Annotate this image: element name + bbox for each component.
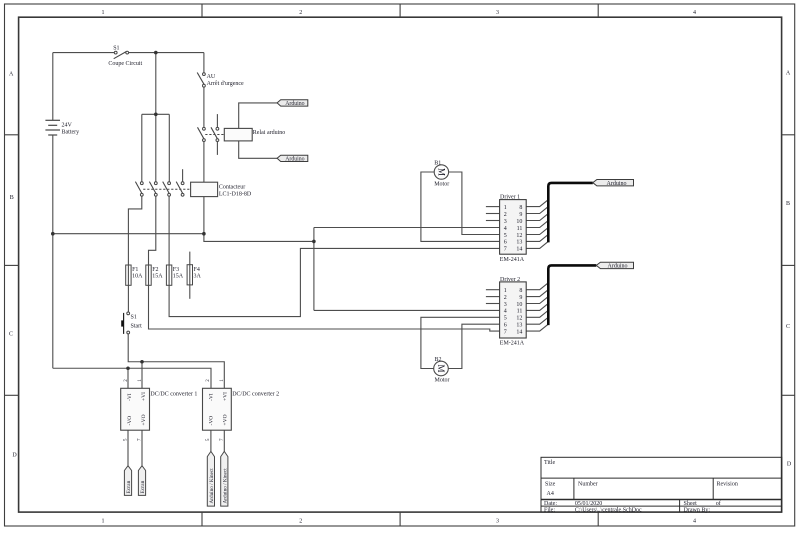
svg-text:9: 9 xyxy=(519,295,522,301)
svg-text:Arrêt d'urgence: Arrêt d'urgence xyxy=(207,81,244,87)
svg-text:C:\Users\..\centrale.SchDoc: C:\Users\..\centrale.SchDoc xyxy=(575,507,642,513)
svg-text:12: 12 xyxy=(516,316,522,322)
svg-text:-VI: -VI xyxy=(127,393,133,401)
svg-text:11: 11 xyxy=(517,309,523,315)
svg-text:Battery: Battery xyxy=(62,130,80,136)
svg-text:AU: AU xyxy=(207,74,216,80)
svg-text:2: 2 xyxy=(504,212,507,218)
svg-text:-VI: -VI xyxy=(209,393,215,401)
svg-text:3: 3 xyxy=(504,219,507,225)
svg-text:C: C xyxy=(9,332,13,338)
svg-text:B: B xyxy=(10,195,14,201)
svg-text:Driver 1: Driver 1 xyxy=(500,195,520,201)
svg-text:Relai arduino: Relai arduino xyxy=(253,130,285,136)
svg-text:Date:: Date: xyxy=(544,501,557,507)
svg-text:DC/DC converter 2: DC/DC converter 2 xyxy=(232,391,279,397)
svg-text:F3: F3 xyxy=(173,267,179,273)
svg-text:+VI: +VI xyxy=(223,392,229,401)
svg-text:1: 1 xyxy=(504,288,507,294)
svg-text:10A: 10A xyxy=(132,274,143,280)
svg-text:8: 8 xyxy=(519,205,522,211)
svg-text:2: 2 xyxy=(299,519,302,525)
svg-text:+VO: +VO xyxy=(141,414,147,425)
svg-text:D: D xyxy=(12,453,17,459)
svg-text:M: M xyxy=(436,364,446,372)
svg-text:24V: 24V xyxy=(62,123,73,129)
svg-text:7: 7 xyxy=(504,247,507,253)
svg-text:6: 6 xyxy=(504,323,507,329)
svg-text:S1: S1 xyxy=(131,314,137,320)
svg-text:Contacteur: Contacteur xyxy=(219,184,245,190)
svg-text:-VO: -VO xyxy=(209,416,215,426)
svg-text:C: C xyxy=(786,324,790,330)
svg-text:-VO: -VO xyxy=(127,416,133,426)
svg-text:13: 13 xyxy=(516,240,522,246)
svg-text:F1: F1 xyxy=(132,267,138,273)
svg-text:A: A xyxy=(786,71,791,77)
svg-text:1: 1 xyxy=(102,519,105,525)
svg-text:Start: Start xyxy=(131,323,143,329)
svg-text:+VI: +VI xyxy=(141,392,147,401)
svg-text:1: 1 xyxy=(102,10,105,16)
svg-text:12: 12 xyxy=(516,233,522,239)
svg-text:7: 7 xyxy=(504,329,507,335)
svg-text:9: 9 xyxy=(519,212,522,218)
svg-text:Sheet: Sheet xyxy=(684,501,698,507)
svg-text:of: of xyxy=(716,500,721,507)
svg-text:DC/DC converter 1: DC/DC converter 1 xyxy=(150,391,197,397)
svg-text:B2: B2 xyxy=(435,357,442,363)
svg-text:Ecran: Ecran xyxy=(126,480,132,493)
svg-text:Motor: Motor xyxy=(435,378,450,384)
svg-text:05/01/2020: 05/01/2020 xyxy=(575,501,602,507)
svg-text:F2: F2 xyxy=(152,267,158,273)
svg-text:File:: File: xyxy=(544,507,555,513)
svg-text:Arduino: Arduino xyxy=(285,101,304,107)
svg-text:Arduino: Arduino xyxy=(608,264,628,270)
svg-text:1: 1 xyxy=(504,205,507,211)
svg-text:10: 10 xyxy=(516,219,522,225)
svg-text:Ecran: Ecran xyxy=(140,480,146,493)
svg-text:LC1-D18-8D: LC1-D18-8D xyxy=(219,192,252,198)
svg-text:A: A xyxy=(9,72,14,78)
svg-text:10: 10 xyxy=(516,302,522,308)
svg-text:Coupe Circuit: Coupe Circuit xyxy=(108,61,142,67)
svg-text:+VO: +VO xyxy=(223,414,229,425)
svg-text:Size: Size xyxy=(545,481,556,487)
svg-text:14: 14 xyxy=(516,247,522,253)
svg-text:11: 11 xyxy=(517,226,523,232)
svg-text:Arduino / Kinect: Arduino / Kinect xyxy=(209,468,215,504)
svg-text:4: 4 xyxy=(504,226,507,232)
svg-text:13: 13 xyxy=(516,323,522,329)
svg-text:S1: S1 xyxy=(113,45,119,51)
svg-text:15A: 15A xyxy=(173,274,184,280)
svg-text:6: 6 xyxy=(504,240,507,246)
svg-text:3A: 3A xyxy=(194,274,202,280)
svg-text:2: 2 xyxy=(504,295,507,301)
svg-text:Motor: Motor xyxy=(434,182,449,188)
svg-text:Driver 2: Driver 2 xyxy=(500,277,520,283)
svg-text:3: 3 xyxy=(504,302,507,308)
svg-text:F4: F4 xyxy=(194,267,200,273)
svg-text:4: 4 xyxy=(693,519,696,525)
svg-text:8: 8 xyxy=(519,288,522,294)
svg-text:B1: B1 xyxy=(434,161,441,167)
svg-text:Arduino: Arduino xyxy=(607,181,627,187)
svg-text:3: 3 xyxy=(496,10,499,16)
svg-text:D: D xyxy=(787,462,792,468)
svg-text:3: 3 xyxy=(496,519,499,525)
svg-text:4: 4 xyxy=(693,10,696,16)
svg-text:2: 2 xyxy=(299,10,302,16)
svg-text:14: 14 xyxy=(516,329,522,335)
svg-text:A4: A4 xyxy=(547,491,554,497)
svg-text:5: 5 xyxy=(504,316,507,322)
svg-text:Title: Title xyxy=(544,460,555,466)
svg-text:EM-241A: EM-241A xyxy=(500,257,525,263)
svg-text:Number: Number xyxy=(578,481,598,487)
svg-text:Drawn By:: Drawn By: xyxy=(684,507,711,513)
svg-text:Arduino: Arduino xyxy=(285,157,304,163)
svg-text:4: 4 xyxy=(504,309,507,315)
svg-text:EM-241A: EM-241A xyxy=(500,340,525,346)
svg-text:Arduino / Kinect: Arduino / Kinect xyxy=(222,468,228,504)
svg-text:M: M xyxy=(436,168,446,176)
svg-text:5: 5 xyxy=(504,233,507,239)
svg-text:Revision: Revision xyxy=(717,481,738,487)
svg-text:B: B xyxy=(786,201,790,207)
svg-text:15A: 15A xyxy=(152,274,163,280)
